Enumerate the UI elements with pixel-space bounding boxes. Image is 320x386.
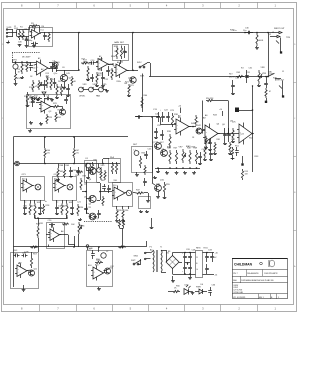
capacitor C52 right col bbox=[143, 178, 147, 186]
label VR6 bbox=[71, 224, 75, 226]
resistor R34 bbox=[77, 204, 79, 216]
label psu bbox=[160, 247, 171, 254]
ground under R1 bbox=[18, 44, 22, 47]
capacitor C35 bbox=[210, 253, 214, 263]
label U11 bbox=[18, 262, 21, 265]
wire Q10 stub bbox=[150, 218, 154, 229]
wave2 labels bbox=[13, 26, 291, 288]
ground boost bbox=[146, 199, 150, 203]
svg-text:R50 22K: R50 22K bbox=[206, 98, 214, 100]
label WKST OUT bbox=[274, 28, 285, 30]
wire riser x=74 bbox=[74, 236, 76, 247]
transistor Q8 bbox=[161, 150, 168, 157]
feedback network box bbox=[113, 45, 129, 61]
ground VR8 bbox=[257, 84, 261, 87]
wire eq1 bbox=[31, 252, 33, 256]
resistor R54 bbox=[139, 156, 141, 168]
capacitor C1b in U1 box bbox=[43, 32, 47, 40]
wire rail bus y=163.5 bbox=[19, 163, 120, 165]
capacitor C38 bbox=[22, 254, 28, 258]
capacitor C36 bbox=[208, 287, 212, 296]
capacitor C45 bbox=[76, 167, 80, 175]
wire main output bus y=32.5 bbox=[40, 32, 269, 34]
resistor R47 bbox=[175, 150, 177, 164]
ground R51 bbox=[231, 157, 235, 160]
resistor R73 bbox=[62, 223, 69, 225]
capacitor C28 bbox=[188, 252, 192, 262]
resistor R69 bbox=[63, 164, 65, 179]
labels C3 fill bbox=[86, 56, 128, 85]
ground C8 bbox=[50, 99, 54, 102]
transformer T1 primary bbox=[153, 250, 154, 272]
op-amp U9b bbox=[203, 124, 220, 144]
potentiometer VR7 bbox=[182, 149, 186, 163]
svg-text:1u: 1u bbox=[45, 201, 47, 203]
capacitor C30 series bbox=[244, 31, 253, 35]
label U8 bbox=[178, 116, 180, 119]
capacitor C2 bbox=[31, 42, 38, 46]
ground EQ2 bbox=[97, 287, 101, 291]
op-amp OP1 bbox=[21, 179, 34, 193]
resistor R37 bbox=[136, 192, 145, 194]
svg-text:+: + bbox=[160, 110, 161, 112]
potentiometer VR5 bbox=[99, 87, 104, 92]
ground OP2 a bbox=[55, 212, 59, 215]
wire psu rail bbox=[183, 253, 196, 275]
resistor R17 bbox=[81, 62, 89, 64]
label EQ1 bbox=[13, 250, 18, 252]
ground R6 bbox=[20, 76, 24, 79]
label fb bbox=[114, 41, 119, 44]
transistor Q9 bbox=[196, 128, 202, 134]
label U6 bbox=[51, 226, 54, 229]
relay K2 parts bbox=[111, 162, 117, 174]
wire fb to stage bbox=[120, 60, 122, 64]
resistor R80 bbox=[203, 146, 207, 161]
svg-text:REG: REG bbox=[196, 248, 201, 250]
label BOOST bbox=[113, 185, 117, 187]
svg-text:PWR: PWR bbox=[196, 287, 201, 289]
wire center link bbox=[135, 116, 153, 118]
label U1 bbox=[32, 27, 37, 29]
svg-text:R80: R80 bbox=[204, 143, 207, 145]
svg-text:C44: C44 bbox=[73, 170, 76, 172]
label R53 bbox=[245, 171, 249, 175]
svg-text:DN A4/08/99: DN A4/08/99 bbox=[247, 272, 259, 275]
relay pad K1 (filled) bbox=[235, 108, 239, 113]
lamp U7 bbox=[126, 190, 131, 195]
capacitor C42 bbox=[198, 152, 202, 162]
pad U10 gnd (filled) bbox=[241, 156, 243, 166]
ground psu bbox=[188, 274, 192, 280]
ground RB b bbox=[145, 210, 149, 213]
op-amp U1 box bbox=[29, 28, 53, 47]
resistor R36 bbox=[122, 209, 124, 219]
title bottom dividers bbox=[259, 294, 277, 299]
capacitor C10 bbox=[89, 61, 96, 65]
resistor R18 bbox=[87, 66, 89, 78]
ground EQ1 bbox=[22, 285, 26, 292]
svg-text:1u: 1u bbox=[24, 202, 26, 204]
module K2 box bbox=[109, 159, 121, 183]
resistor R1 bbox=[18, 30, 20, 41]
label pot row bbox=[79, 95, 101, 98]
ground Q5b bbox=[78, 218, 82, 221]
ground RB a bbox=[139, 210, 143, 213]
wire return bus y=76.5 bbox=[149, 76, 244, 78]
potentiometer VR9 bbox=[97, 164, 102, 173]
ground C44 bbox=[69, 175, 73, 178]
resistor R6 bbox=[21, 62, 23, 74]
wire u11 out bbox=[27, 270, 29, 272]
resistor R56 bbox=[168, 290, 180, 292]
resistor R30 bbox=[66, 204, 68, 219]
ground R55 bbox=[163, 194, 167, 199]
resistor R3 feedback bbox=[31, 25, 38, 27]
pad J2 shield bbox=[280, 51, 282, 53]
wire center drop x=152 bbox=[152, 117, 154, 183]
svg-text:R20b: R20b bbox=[117, 81, 121, 83]
resistor R32 bbox=[68, 240, 70, 244]
resistor R23 bbox=[52, 105, 60, 107]
op-amp U11 bbox=[15, 264, 29, 279]
module relay box RB bbox=[139, 197, 151, 209]
capacitor C10b bbox=[90, 74, 94, 82]
capacitor C18 bbox=[55, 204, 59, 213]
lamp OP1 bbox=[35, 184, 41, 190]
capacitor C22 bbox=[160, 110, 165, 123]
power label +16V bbox=[178, 106, 181, 114]
wire U10 out bbox=[251, 133, 254, 135]
resistor R10 bbox=[32, 80, 34, 92]
ground under C1 bbox=[25, 44, 29, 48]
capacitor C9 bbox=[123, 46, 127, 58]
capacitor C23 bbox=[166, 112, 170, 122]
title row line 4 bbox=[232, 293, 288, 295]
resistor R21 bbox=[128, 84, 130, 94]
op-amp U2 discrete triangle bbox=[35, 60, 50, 77]
resistor R72 on bus bbox=[118, 246, 126, 248]
title row line 2 bbox=[232, 276, 288, 278]
capacitor C39 bbox=[91, 250, 95, 259]
ground R8 bbox=[55, 96, 59, 99]
ground R19 bbox=[95, 84, 105, 87]
label EQ2 bbox=[88, 264, 92, 267]
labels right sub bbox=[196, 122, 236, 124]
wire boost out bbox=[133, 192, 136, 194]
capacitor C34 bbox=[205, 264, 209, 274]
module OP1 box bbox=[21, 177, 45, 201]
ground R68 bbox=[56, 178, 60, 181]
title logo stamp bbox=[269, 260, 275, 267]
ground misc2 bbox=[36, 98, 40, 101]
capacitor C4 bbox=[29, 62, 33, 71]
label K2 bbox=[110, 156, 115, 159]
resistor R7 bbox=[26, 62, 28, 72]
title approvals bbox=[233, 285, 243, 294]
resistor R48 bbox=[189, 150, 191, 164]
op-amp U12 bbox=[91, 266, 105, 281]
svg-text:10u: 10u bbox=[243, 30, 246, 32]
label C4b bbox=[32, 65, 36, 69]
op-amp U5 bbox=[39, 100, 53, 114]
lamp M1 indicator bbox=[31, 97, 35, 101]
resistor R5 bbox=[14, 72, 16, 82]
capacitor C54 bbox=[160, 130, 164, 140]
op-amp U6 bbox=[48, 228, 61, 243]
wire rail drop x=45 bbox=[44, 136, 46, 148]
label Q1 bbox=[69, 78, 73, 80]
ground C42 bbox=[198, 162, 202, 165]
resistor R13 bbox=[46, 76, 48, 88]
connector J1 polarity tick bbox=[279, 86, 282, 89]
capacitor C49 bbox=[64, 97, 68, 105]
wire boost out2 bbox=[144, 193, 149, 200]
capacitor C24a bbox=[223, 128, 227, 142]
svg-text:1: 1 bbox=[278, 297, 279, 299]
svg-text:R16b: R16b bbox=[111, 56, 115, 58]
module OP2 pins bbox=[57, 200, 73, 204]
wire U9b feedback bbox=[203, 101, 240, 135]
resistor R20 bbox=[111, 68, 113, 80]
svg-text:C9: C9 bbox=[86, 79, 88, 81]
ground R36 bbox=[121, 219, 125, 223]
svg-text:5532: 5532 bbox=[99, 59, 103, 61]
resistor R67 bbox=[73, 148, 75, 164]
resistor R49 bbox=[195, 150, 197, 164]
resistor R9 bbox=[60, 84, 62, 96]
title row line 1 bbox=[232, 269, 288, 271]
trimmer VR2 bbox=[38, 80, 42, 90]
wire U1 feedback bbox=[30, 26, 40, 33]
capacitor C46 bbox=[102, 184, 106, 191]
resistor R50 feedback bbox=[206, 99, 214, 101]
relay K1 coil bbox=[86, 162, 94, 174]
svg-text:C53: C53 bbox=[157, 125, 160, 127]
capacitor C8 bbox=[44, 97, 52, 101]
wire riser x=122 bbox=[120, 228, 124, 247]
wire reg out + bbox=[203, 252, 215, 254]
transistor Q11 bbox=[29, 270, 35, 276]
switch SW1 bbox=[137, 62, 151, 77]
svg-text:1078 HMGH ELAST-HCH-4.7LGBY-GD: 1078 HMGH ELAST-HCH-4.7LGBY-GD bbox=[241, 279, 274, 282]
transistor Q5 bbox=[89, 195, 96, 202]
resistor R53 bbox=[241, 169, 243, 180]
resistor R60 on drop bbox=[141, 97, 143, 108]
capacitor C55 bbox=[209, 150, 213, 161]
resistor R15 bbox=[116, 46, 118, 60]
ground dashed end bbox=[93, 216, 97, 219]
capacitor C7 bbox=[42, 80, 46, 90]
transistor Q4 bbox=[89, 167, 96, 174]
dashed link bbox=[84, 221, 112, 223]
ground R18 bbox=[86, 78, 90, 81]
op-amp OP2 bbox=[53, 179, 66, 193]
capacitor C25 bbox=[144, 151, 148, 159]
resistor R64 bbox=[205, 136, 207, 146]
capacitor C1 bbox=[25, 37, 29, 45]
module BOOST box bbox=[113, 183, 133, 207]
wire psu bridge bot bbox=[173, 269, 184, 275]
ground R40 bbox=[255, 46, 259, 50]
capacitor C32 bbox=[231, 80, 235, 92]
svg-text:CHILDMAN: CHILDMAN bbox=[234, 263, 253, 267]
resistor R58 bbox=[95, 261, 103, 263]
op-amp U8 bbox=[174, 118, 191, 136]
potentiometer VR6 bbox=[78, 222, 82, 234]
svg-text:4TL 6CCB5R1: 4TL 6CCB5R1 bbox=[233, 297, 245, 299]
lamp OP2 bbox=[67, 184, 73, 190]
svg-text:PAN: PAN bbox=[96, 95, 101, 98]
transistor Q1b bbox=[53, 62, 58, 67]
resistor R24 bbox=[55, 112, 57, 122]
op-amp U4 bbox=[114, 63, 129, 79]
wire relay pad link bbox=[239, 110, 253, 112]
resistor R35 bbox=[116, 209, 118, 219]
svg-text:-16: -16 bbox=[215, 275, 218, 277]
svg-text:LIM: LIM bbox=[29, 98, 33, 100]
resistor R81 bbox=[213, 142, 217, 155]
module M1 box bbox=[27, 95, 71, 129]
svg-text:LEVEL: LEVEL bbox=[79, 96, 86, 98]
resistor R14 bbox=[50, 78, 52, 90]
wire amp in bbox=[152, 116, 160, 118]
ground extra row bbox=[153, 176, 157, 179]
capacitor C13 series bbox=[136, 115, 143, 119]
wire SW3 throw bbox=[275, 78, 281, 80]
svg-text:LED: LED bbox=[185, 285, 189, 287]
wire M1 misc bbox=[36, 103, 63, 110]
capacitor C12 bbox=[106, 66, 110, 76]
resistor R76 bbox=[104, 170, 106, 180]
capacitor C21 bbox=[84, 204, 88, 214]
capacitor C20 bbox=[49, 223, 55, 227]
capacitor C14 bbox=[31, 97, 35, 107]
ground R35 bbox=[115, 219, 119, 223]
svg-text:R81: R81 bbox=[217, 139, 220, 141]
svg-text:SW-2: SW-2 bbox=[137, 62, 141, 64]
ground Q10 bbox=[156, 191, 160, 198]
svg-text:RLA: RLA bbox=[110, 156, 115, 159]
component designator labels bbox=[14, 23, 278, 272]
label C30 bbox=[233, 28, 250, 33]
resistor R39 bbox=[169, 134, 171, 148]
wire drop x=268 to input bus bbox=[267, 32, 269, 78]
wire riser x=146 bbox=[146, 241, 148, 247]
ground OP2 c bbox=[70, 212, 74, 215]
diode D8 riser bbox=[118, 219, 120, 228]
label bus parts bbox=[60, 170, 76, 173]
wire stage2 couple bbox=[49, 68, 56, 70]
module K1 box bbox=[85, 161, 97, 183]
resistor R66 bbox=[44, 148, 46, 164]
diode D6 bbox=[195, 289, 207, 294]
switch SW3 input select bbox=[267, 73, 274, 77]
ground row b bbox=[165, 171, 169, 175]
wire drop x=99 into module bbox=[98, 247, 100, 252]
connector J2 polarity tick bbox=[276, 41, 279, 44]
wire lower bus bbox=[155, 167, 200, 169]
capacitor C31 bbox=[245, 70, 249, 83]
label U2 bbox=[38, 57, 40, 60]
svg-text:+16: +16 bbox=[178, 106, 181, 108]
op-amp U7 bbox=[112, 186, 127, 201]
capacitor C43 bbox=[66, 84, 70, 94]
transistor Q7 bbox=[155, 143, 162, 150]
label +16V out bbox=[215, 253, 218, 255]
svg-text:FbD: FbD bbox=[233, 280, 237, 282]
wire stub box2 bbox=[86, 245, 89, 250]
title row line 3 bbox=[232, 282, 288, 284]
resistor R45 bbox=[236, 75, 244, 77]
svg-text:XLR: XLR bbox=[14, 28, 19, 30]
wire xfmr taps bbox=[151, 251, 167, 273]
connector J2 pin2 bbox=[270, 35, 280, 37]
connector XLR1 input bbox=[6, 27, 17, 37]
bridge rectifier D1-D4 bbox=[166, 250, 179, 269]
resistor R31 bbox=[37, 226, 39, 238]
label R40 bbox=[259, 40, 264, 42]
wire J1 shield bbox=[282, 81, 284, 96]
node junction at (79,32.5) bbox=[78, 32, 80, 34]
label RLY bbox=[229, 74, 235, 79]
module BOOST pins bbox=[117, 206, 129, 209]
node junction at (133,32.5) bbox=[132, 32, 134, 34]
ground LED bbox=[189, 292, 194, 295]
resistor R55 bbox=[163, 182, 165, 194]
label U3 bbox=[99, 55, 101, 58]
svg-text:+16: +16 bbox=[215, 253, 218, 255]
lamp DET bbox=[134, 151, 139, 156]
ground C41 bbox=[208, 148, 212, 151]
transformer T1 core bbox=[157, 250, 158, 272]
title logo text bbox=[234, 262, 262, 266]
label R67 bbox=[76, 150, 81, 154]
wire rail drop x=74 bbox=[73, 136, 75, 148]
wire det link bbox=[152, 183, 155, 185]
capacitor C37 bbox=[14, 254, 20, 258]
wire drop x=79 bbox=[78, 33, 80, 61]
diode D7 bbox=[42, 92, 46, 97]
ground OP1 c bbox=[38, 212, 42, 215]
svg-text:A4: A4 bbox=[117, 61, 119, 64]
ground pot row bbox=[105, 90, 109, 93]
capacitor C5 bbox=[49, 62, 54, 72]
resistor R8 bbox=[56, 84, 58, 96]
label BAL CONN bbox=[269, 70, 275, 75]
lamp L2 bbox=[101, 253, 106, 258]
potentiometer VR4 bbox=[89, 87, 94, 92]
wire relay bus bbox=[244, 76, 268, 78]
resistor R65 bbox=[71, 76, 73, 86]
module EQ1 box bbox=[11, 253, 39, 289]
resistor R4b in U1 box bbox=[48, 32, 50, 42]
transistor Q1 bbox=[60, 74, 67, 81]
label R65 bbox=[74, 81, 77, 83]
capacitor C48 bbox=[53, 78, 57, 88]
label LED bbox=[174, 287, 201, 290]
svg-text:Q5: Q5 bbox=[97, 218, 100, 220]
ground M1 below box bbox=[28, 129, 32, 133]
wire K2 feed bbox=[103, 159, 110, 164]
ground U1 bias bbox=[32, 45, 36, 48]
resistor R44 bbox=[169, 150, 171, 164]
resistor R38 bbox=[171, 113, 173, 127]
capacitor C16 bbox=[23, 204, 27, 213]
capacitor C19 bbox=[70, 204, 74, 213]
capacitor C53 bbox=[154, 128, 158, 139]
labels central bbox=[160, 142, 191, 148]
